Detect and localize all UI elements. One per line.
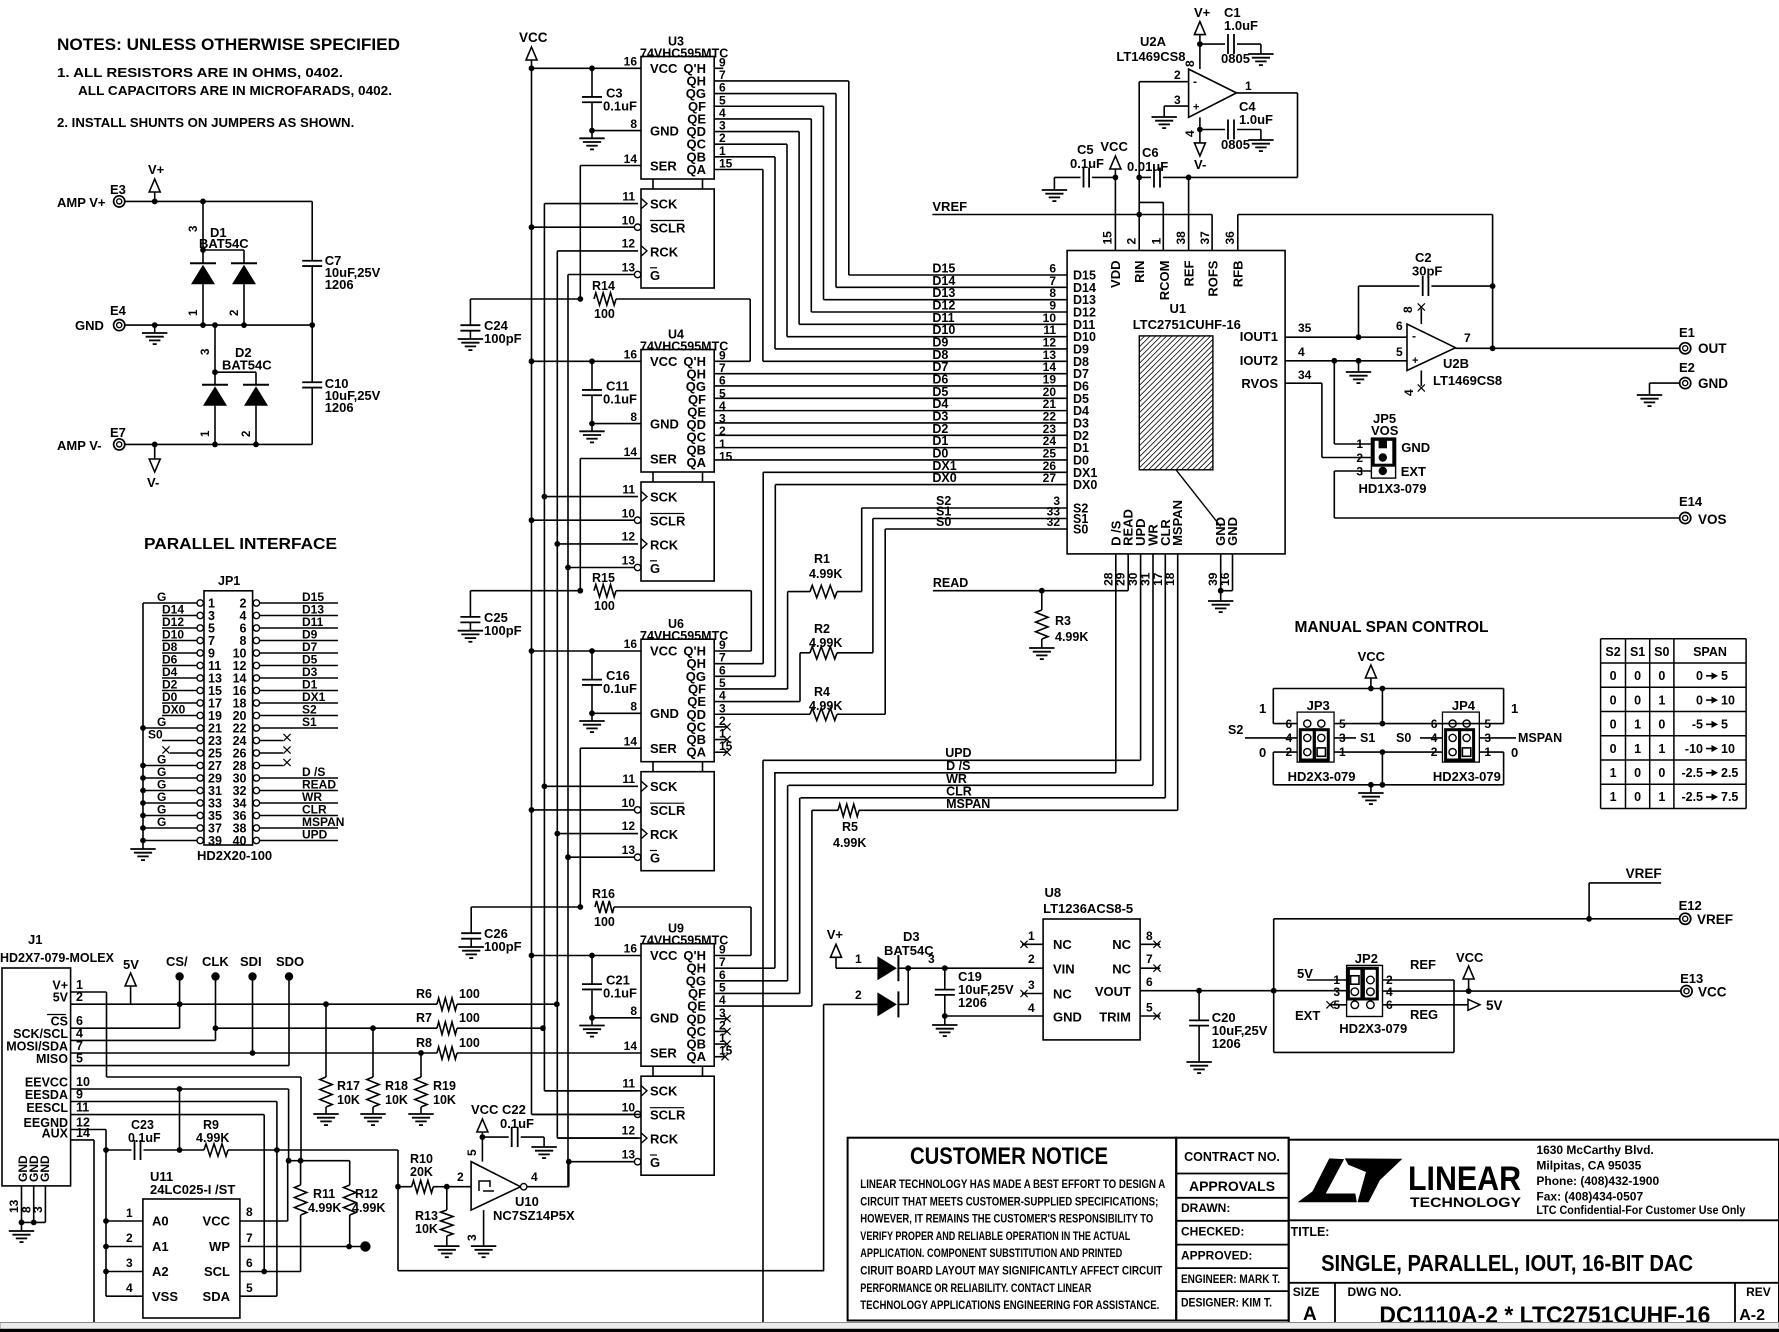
svg-text:SCLR: SCLR [650,1108,686,1123]
U9 control pin wires [532,956,642,1162]
svg-text:40: 40 [233,834,247,848]
svg-text:8: 8 [1146,929,1153,943]
svg-text:C22: C22 [502,1102,526,1117]
wire SCK/SCL row [71,1039,216,1041]
svg-text:TITLE:: TITLE: [1291,1225,1330,1239]
capacitor C2 [1359,250,1496,337]
JP1 pin row 13/14 [162,665,338,686]
svg-text:8: 8 [1183,60,1197,67]
svg-text:-: - [1412,329,1416,343]
svg-text:32: 32 [1047,515,1061,529]
U4 control pin wires [532,361,642,567]
svg-text:10: 10 [622,1101,636,1115]
wire RFB feedback vertical [1490,215,1496,352]
opamp U2A [1116,34,1252,137]
svg-text:AUX: AUX [42,1126,69,1140]
wire U3 SER link [577,166,641,302]
svg-text:RCK: RCK [650,244,679,259]
svg-text:RCK: RCK [650,827,679,842]
wire U10 output [527,1162,569,1187]
U1 bottom pin names [1101,500,1240,586]
svg-text:CIRCUIT THAT MEETS CUSTOMER-SU: CIRCUIT THAT MEETS CUSTOMER-SUPPLIED SPE… [860,1194,1158,1208]
capacitor C10 [302,325,380,444]
U11 pin SDA wire [240,1281,277,1296]
svg-text:3: 3 [1333,985,1340,999]
opamp U2B [1396,303,1502,396]
svg-text:PERFORMANCE OR RELIABILITY. C: PERFORMANCE OR RELIABILITY. CONTACT LINE… [860,1281,1091,1295]
resistor R16 [592,887,751,929]
svg-text:QA: QA [687,162,707,177]
svg-text:1.0uF: 1.0uF [1239,112,1273,127]
svg-text:R17: R17 [337,1079,360,1093]
wire VCC/SCLR bus [529,65,641,1114]
svg-text:8: 8 [630,117,637,131]
svg-text:DX0: DX0 [932,471,956,485]
svg-text:AMP V-: AMP V- [57,438,102,453]
note 1 [57,65,392,98]
svg-text:E12: E12 [1679,898,1702,913]
svg-text:2: 2 [241,431,253,437]
regulator U8 [1020,885,1160,1040]
jumper JP5 [1356,411,1430,496]
svg-text:2: 2 [229,310,241,316]
svg-text:S0: S0 [148,728,163,742]
svg-text:15: 15 [719,157,733,171]
JP1 pin row 9/10 [162,640,338,661]
svg-text:RFB: RFB [1230,261,1245,288]
wire UPD row [763,554,1141,760]
svg-text:QA: QA [687,455,707,470]
svg-text:EESDA: EESDA [25,1088,68,1102]
span table [1601,639,1747,809]
svg-text:RVOS: RVOS [1241,376,1278,391]
svg-text:16: 16 [624,347,638,361]
JP1 ground bus [130,603,155,860]
power flag V+ (U2A) [1194,5,1211,69]
contract column [1176,1138,1289,1321]
resistor R11 [289,1158,342,1272]
svg-text:VIN: VIN [1053,962,1075,977]
svg-text:4: 4 [1402,389,1416,396]
svg-text:NC: NC [1112,962,1131,977]
wire IOUT1 row [1285,334,1407,340]
svg-text:1: 1 [1610,790,1617,804]
capacitor C26 [459,907,581,958]
svg-text:0: 0 [1658,718,1665,732]
svg-text:GND: GND [1698,376,1728,391]
svg-text:V+: V+ [827,927,844,942]
svg-text:WP: WP [209,1239,230,1254]
svg-text:R10: R10 [410,1152,433,1166]
svg-text:S2: S2 [1605,645,1620,659]
svg-text:VERIFY PROPER AND RELIABLE OPE: VERIFY PROPER AND RELIABLE OPERATION IN … [860,1229,1130,1243]
wire DX0 [714,471,1067,676]
resistor R19 [408,1053,456,1125]
svg-text:5: 5 [1721,669,1728,683]
JP1 pin row 37/38 [140,815,344,836]
wire JP5 pin3 to E14 [1334,471,1726,527]
wire CS row [71,1027,180,1029]
svg-text:R18: R18 [385,1079,408,1093]
svg-text:GND: GND [650,1011,679,1026]
svg-text:7.5: 7.5 [1721,790,1738,804]
svg-text:SINGLE, PARALLEL, IOUT, 16-BIT: SINGLE, PARALLEL, IOUT, 16-BIT DAC [1321,1250,1693,1276]
testpoint CLK [202,954,229,1040]
svg-text:24LC025-I /ST: 24LC025-I /ST [150,1182,235,1197]
svg-text:0: 0 [1696,693,1703,707]
resistor R5 [833,804,866,850]
svg-text:5: 5 [1146,1001,1153,1015]
svg-text:1: 1 [126,1206,133,1220]
svg-text:7: 7 [1464,331,1471,345]
capacitor C21 [579,953,637,1037]
JP1 pin row 23/24 [148,728,291,749]
wire U2B output to E1 [1456,325,1728,356]
connector J1 box [0,932,115,1186]
resistor R12 [301,1161,386,1247]
svg-text:5V: 5V [123,957,139,972]
svg-text:MSPAN: MSPAN [1518,731,1562,745]
svg-text:HD2X3-079: HD2X3-079 [1433,769,1501,784]
JP1 pin row 7/8 [162,628,338,649]
svg-text:4.99K: 4.99K [809,567,842,581]
wire IOUT2 row [1285,358,1407,364]
wire CLK row [216,1025,438,1031]
svg-text:3: 3 [188,226,200,232]
parallel interface title [144,536,337,553]
eeprom U11 [143,1169,240,1318]
svg-text:39: 39 [208,834,222,848]
svg-text:0.1uF: 0.1uF [500,1116,534,1131]
customer notice title [910,1143,1108,1170]
svg-text:E14: E14 [1679,494,1703,509]
U6 control pin wires [532,651,642,857]
JP1 pin row 3/4 [162,603,338,624]
svg-text:100: 100 [459,1011,480,1025]
svg-text:GND: GND [1053,1010,1082,1025]
diode D2 [200,325,272,444]
svg-text:4.99K: 4.99K [809,636,842,650]
svg-text:10: 10 [1721,693,1735,707]
svg-text:4: 4 [1183,130,1197,137]
svg-text:VCC: VCC [203,1214,231,1229]
svg-text:100: 100 [594,307,615,321]
svg-text:1: 1 [188,309,200,316]
notes heading [57,36,400,54]
wire MOSI/SDA row [71,1050,437,1056]
svg-text:1: 1 [1658,693,1665,707]
wire EESCL row [71,1115,268,1275]
resistor R1 [714,508,862,689]
svg-text:VOS: VOS [1371,423,1399,438]
svg-text:G: G [650,268,660,283]
svg-text:20K: 20K [410,1165,433,1179]
svg-text:0.1uF: 0.1uF [128,1131,161,1145]
svg-text:RCK: RCK [650,537,679,552]
wire MSPAN loop [395,1150,824,1271]
svg-text:R9: R9 [203,1118,219,1132]
svg-text:Phone: (408)432-1900: Phone: (408)432-1900 [1536,1174,1659,1188]
capacitor C4 [1200,99,1274,152]
svg-text:UPD: UPD [945,746,971,760]
wire U9 QH to D/S [714,773,775,968]
wire EEGND row [71,1130,109,1297]
JP1 pin row 17/18 [162,690,338,711]
svg-text:7: 7 [246,1231,253,1245]
svg-text:100pF: 100pF [484,331,522,346]
svg-text:4.99K: 4.99K [308,1201,341,1215]
svg-text:ENGINEER: MARK T.: ENGINEER: MARK T. [1181,1272,1280,1286]
wire G bus [565,275,572,1187]
manual span title [1295,619,1489,636]
svg-text:RIN: RIN [1132,261,1147,283]
svg-text:1.0uF: 1.0uF [1224,18,1258,33]
U1 top pin names [1101,231,1246,300]
power flag V+ (U8) [827,927,844,968]
svg-text:2: 2 [1028,952,1035,966]
resistor R17 [313,1004,360,1125]
U11 pin VCC wire [240,1161,288,1221]
svg-text:R3: R3 [1055,614,1071,628]
svg-text:LT1469CS8: LT1469CS8 [1116,49,1185,64]
svg-text:BAT54C: BAT54C [199,236,249,251]
svg-text:38: 38 [1174,231,1188,245]
svg-text:1: 1 [200,430,212,437]
svg-text:VCC: VCC [650,948,678,963]
svg-text:HD2X7-079-MOLEX: HD2X7-079-MOLEX [0,951,115,965]
svg-text:RCK: RCK [650,1132,679,1147]
svg-text:SCK: SCK [650,779,678,794]
svg-text:C23: C23 [131,1118,154,1132]
power flag VCC (E13) [1456,950,1484,994]
testpoint SDO [276,954,304,1066]
svg-text:34: 34 [1298,368,1312,382]
svg-text:6: 6 [1396,319,1403,333]
svg-text:12: 12 [622,529,636,543]
svg-text:VCC: VCC [1698,985,1727,1000]
svg-text:EXT: EXT [1295,1008,1320,1023]
wire WR row [788,554,1153,786]
svg-text:1: 1 [1356,437,1363,451]
U1 left pin names [1073,269,1097,537]
JP1 pin row 15/16 [162,678,338,699]
svg-text:G: G [650,561,660,576]
svg-text:0805: 0805 [1221,137,1250,152]
svg-text:0: 0 [1610,693,1617,707]
title block frame [1289,1140,1779,1327]
svg-text:VCC: VCC [1456,950,1484,965]
svg-text:VREF: VREF [1626,866,1662,881]
svg-text:1: 1 [1658,790,1665,804]
svg-text:14: 14 [624,1039,638,1053]
jumper JP2 [1295,951,1438,1036]
svg-text:SER: SER [650,741,677,756]
wire U2A feedback [1237,93,1298,177]
resistor R8 [416,1036,641,1059]
svg-text:27: 27 [1043,471,1057,485]
diode D3 [824,929,1044,1271]
svg-text:1: 1 [1259,701,1266,716]
svg-text:10: 10 [622,796,636,810]
svg-text:-2.5: -2.5 [1681,790,1703,804]
svg-text:A2: A2 [152,1264,169,1279]
svg-text:MISO: MISO [36,1052,68,1066]
svg-text:0.1uF: 0.1uF [603,986,637,1001]
svg-text:3: 3 [126,1256,133,1270]
svg-text:8: 8 [246,1205,253,1219]
wire S2 row [862,494,1067,508]
svg-text:SER: SER [650,1046,677,1061]
svg-text:HD2X20-100: HD2X20-100 [197,848,272,863]
svg-text:35: 35 [1298,321,1312,335]
JP4 wires [1382,689,1562,785]
svg-text:0: 0 [1610,718,1617,732]
svg-text:4: 4 [1386,985,1393,999]
svg-text:E4: E4 [110,303,127,318]
capacitor C11 [579,358,637,442]
svg-text:Fax: (408)434-0507: Fax: (408)434-0507 [1536,1190,1643,1204]
svg-text:0: 0 [1658,669,1665,683]
svg-text:PARALLEL INTERFACE: PARALLEL INTERFACE [144,536,337,553]
wire DX1 [714,459,1067,664]
svg-text:SER: SER [650,451,677,466]
svg-text:0: 0 [1610,669,1617,683]
capacitor C5 [1042,142,1116,201]
svg-text:0: 0 [1259,745,1266,760]
wire VOUT row [1140,988,1347,994]
U3 QH' stub [714,67,723,69]
svg-text:1: 1 [855,952,862,966]
svg-text:0.1uF: 0.1uF [603,681,637,696]
svg-text:13: 13 [622,843,636,857]
svg-text:SCK: SCK [650,489,678,504]
svg-text:LTC2751CUHF-16: LTC2751CUHF-16 [1133,317,1241,332]
svg-text:DWG NO.: DWG NO. [1348,1285,1402,1299]
svg-text:3: 3 [200,349,212,355]
svg-text:A: A [1303,1304,1317,1325]
svg-text:-2.5: -2.5 [1681,766,1703,780]
svg-text:1: 1 [1634,718,1641,732]
JP3 wires [1228,689,1382,785]
svg-text:HD1X3-079: HD1X3-079 [1359,481,1427,496]
svg-text:5: 5 [246,1281,253,1295]
resistor R13 [415,1187,453,1246]
svg-text:TECHNOLOGY APPLICATIONS ENGINE: TECHNOLOGY APPLICATIONS ENGINEERING FOR … [860,1298,1159,1312]
svg-text:11: 11 [76,1101,89,1115]
svg-text:LTC Confidential-For Customer: LTC Confidential-For Customer Use Only [1536,1203,1745,1217]
svg-text:U10: U10 [515,1194,539,1209]
wire E7 row [124,442,312,448]
turret E4 [75,303,127,333]
svg-text:R19: R19 [433,1079,456,1093]
svg-text:LINEAR TECHNOLOGY HAS MADE A B: LINEAR TECHNOLOGY HAS MADE A BEST EFFORT… [860,1177,1165,1191]
note 2 [57,115,354,130]
svg-text:5: 5 [1396,345,1403,359]
wire REF loop [1274,980,1454,1052]
svg-text:J1: J1 [28,932,42,947]
svg-text:E7: E7 [110,425,126,440]
svg-text:R13: R13 [415,1209,438,1223]
U1 GND pins [1208,554,1233,612]
svg-text:S0: S0 [1396,731,1411,745]
svg-text:11: 11 [622,772,635,786]
wire U9 QF to CLR [714,798,800,994]
svg-text:VREF: VREF [932,199,967,214]
svg-text:+: + [1412,355,1418,367]
svg-text:DESIGNER: KIM T.: DESIGNER: KIM T. [1181,1296,1272,1310]
svg-text:4.99K: 4.99K [352,1201,385,1215]
wire E13 row [1383,971,1727,1000]
svg-text:5: 5 [465,1149,479,1156]
svg-text:0: 0 [1511,745,1518,760]
svg-text:C5: C5 [1077,142,1094,157]
svg-text:1: 1 [1658,742,1665,756]
svg-text:5V: 5V [1486,998,1503,1013]
svg-text:0: 0 [1634,669,1641,683]
svg-text:A-2: A-2 [1739,1307,1765,1324]
shift register U3 [622,34,733,288]
svg-text:R11: R11 [313,1187,335,1201]
svg-text:D3: D3 [903,929,920,944]
svg-text:QA: QA [687,745,707,760]
U1 thermal pad [1139,336,1213,470]
svg-text:E2: E2 [1679,360,1695,375]
svg-text:VCC: VCC [650,61,678,76]
JP1 pin row 29/30 [140,765,338,786]
svg-text:+: + [1193,102,1199,114]
wire 5V/CS' row [71,1001,437,1007]
svg-text:JP4: JP4 [1452,698,1476,713]
svg-text:V+: V+ [148,162,165,177]
svg-text:10: 10 [1721,742,1735,756]
svg-text:6: 6 [246,1256,253,1270]
svg-text:S1: S1 [1630,645,1645,659]
svg-text:13: 13 [622,1148,636,1162]
testpoint CS/ [166,954,188,1028]
wire C6 to REF pin [1188,177,1190,250]
svg-text:14: 14 [624,152,638,166]
svg-text:VCC: VCC [650,644,678,659]
power flag VCC (U1) [1100,139,1128,251]
JP2 pin5 stub [1326,1001,1346,1008]
svg-text:0.01uF: 0.01uF [1127,159,1168,174]
svg-text:8: 8 [1401,306,1415,313]
customer notice text [860,1177,1165,1312]
svg-text:AMP V+: AMP V+ [57,195,106,210]
JP1 pin row 21/22 [140,715,338,736]
svg-text:U2B: U2B [1443,356,1469,371]
wire CLR row [801,554,1166,799]
svg-text:100: 100 [594,915,615,929]
wire READ pin [1127,554,1129,591]
capacitor C24 [458,299,581,350]
wire U9 QG to WR [714,785,787,981]
svg-text:MSPAN: MSPAN [1170,500,1185,546]
svg-text:BAT54C: BAT54C [884,943,934,958]
svg-text:1206: 1206 [325,277,354,292]
svg-text:U1: U1 [1170,301,1187,316]
svg-text:MANUAL SPAN CONTROL: MANUAL SPAN CONTROL [1295,619,1489,636]
svg-text:VSS: VSS [152,1289,178,1304]
wire EEVCC row [71,1086,292,1164]
U9 GND wire [592,1017,641,1019]
svg-text:EESCL: EESCL [26,1101,68,1115]
svg-text:VCC: VCC [519,30,548,45]
svg-text:C6: C6 [1142,145,1159,160]
U2B pin5 ground [1346,361,1371,383]
svg-text:1. ALL RESISTORS ARE IN OHMS,: 1. ALL RESISTORS ARE IN OHMS, 0402. [57,65,343,80]
U2A pin4 V- [1194,117,1206,172]
